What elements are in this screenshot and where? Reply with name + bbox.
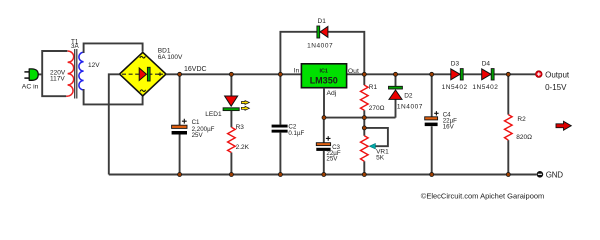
svg-text:6A 100V: 6A 100V [158,54,183,61]
svg-text:117V: 117V [50,76,65,83]
arrow output direction [556,121,571,130]
svg-text:16VDC: 16VDC [184,66,207,73]
wire: secondary top to bridge [84,43,143,53]
transformer T1 core [75,49,77,99]
svg-text:270Ω: 270Ω [369,105,385,112]
svg-text:IC1: IC1 [320,69,328,75]
capacitor C1 [172,119,215,139]
svg-text:R3: R3 [236,124,245,131]
svg-text:Out: Out [348,68,359,75]
wire: ground rail [109,174,537,176]
svg-text:5K: 5K [376,155,385,162]
junction dots ground rail [178,173,511,177]
svg-text:820Ω: 820Ω [516,134,532,141]
svg-text:LED1: LED1 [205,111,222,118]
diode D3 [442,60,468,91]
junction dots top rail [178,72,511,76]
transformer T1 secondary winding [79,52,84,90]
svg-text:LM350: LM350 [310,76,338,86]
diode D2 [389,86,423,110]
svg-text:D3: D3 [451,60,460,67]
wire: R2 branch [507,74,509,174]
resistor R2 [505,115,533,141]
svg-text:25V: 25V [326,155,338,162]
capacitor C2 [272,123,305,137]
svg-text:Adj: Adj [327,90,337,97]
svg-text:1N4007: 1N4007 [307,42,333,49]
diode D4 [472,60,498,91]
transformer T1 primary winding [66,51,73,96]
svg-text:0-15V: 0-15V [545,83,567,92]
svg-text:1N5402: 1N5402 [442,84,468,91]
capacitor C3 [316,136,341,162]
svg-text:GND: GND [546,171,563,180]
svg-text:R1: R1 [369,84,378,91]
svg-text:0.1µF: 0.1µF [288,130,304,137]
svg-text:16V: 16V [443,123,455,130]
wire: C3 branch [323,118,325,175]
potentiometer VR1 [361,136,390,162]
terminal GND [537,171,564,180]
wire: VR1 branch [363,118,365,175]
svg-text:Output: Output [545,70,570,79]
diode D1 [307,18,333,49]
resistor R1 [361,84,385,112]
wire: VR1 wiper loop [364,128,388,146]
wire: LED/R3 branch [230,74,232,174]
wire: D2 branch [395,74,397,117]
terminal Output [536,70,570,92]
resistor R3 [228,124,250,153]
wire: top rail right (IC Out to Output) [347,73,536,75]
wire: D1 protection loop [280,32,364,75]
svg-text:2.2K: 2.2K [236,144,250,151]
svg-text:1N5402: 1N5402 [472,84,498,91]
svg-text:D2: D2 [404,93,413,100]
wire: C2 branch [279,74,281,174]
LED LED1 [205,96,249,118]
svg-text:D1: D1 [318,18,327,25]
svg-text:AC in: AC in [22,84,39,91]
wire: top rail left (bridge to IC In) [166,73,301,75]
wire: C4 branch [431,74,433,174]
svg-text:In: In [294,68,300,75]
svg-text:12V: 12V [88,62,100,69]
svg-text:©ElecCircuit.com Apichet Garai: ©ElecCircuit.com Apichet Garaipoom [421,191,545,200]
svg-text:1N4007: 1N4007 [397,104,423,111]
svg-text:25V: 25V [192,132,204,139]
junction dots adj line [322,116,366,130]
bridge rectifier BD1 [120,52,167,96]
wire: plug to primary [38,73,42,75]
wire: secondary bottom to bridge [84,89,143,104]
regulator IC1 LM350 [294,64,359,97]
svg-text:3A: 3A [71,43,80,50]
wire: C1 branch [179,74,181,174]
svg-text:D4: D4 [482,60,491,67]
wire: bridge minus to ground rail [109,74,120,174]
capacitor C4 [425,111,457,130]
svg-text:R2: R2 [517,116,526,123]
wire: primary loop [42,51,67,96]
AC plug [22,69,39,91]
wire: Adj line [324,88,396,118]
wire: R1 branch [363,74,365,117]
